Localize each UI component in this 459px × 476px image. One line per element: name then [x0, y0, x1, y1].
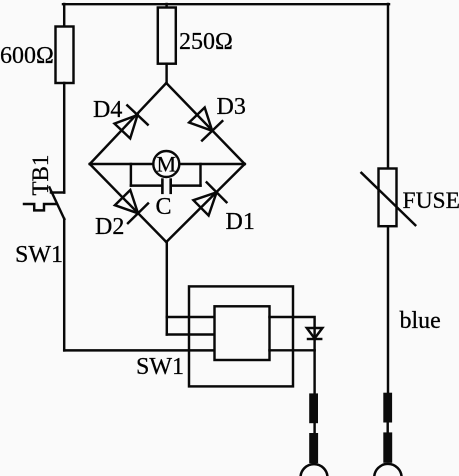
relay SW1 inner box [215, 306, 270, 360]
wire 250ohm bottom to bridge top [165, 64, 167, 84]
wire capacitor right lead [171, 184, 201, 186]
diode D2 [115, 190, 148, 223]
svg-text:D3: D3 [217, 94, 246, 120]
wire top-left drop to R 600 [63, 4, 65, 27]
diode D1 [193, 182, 226, 215]
thermal breaker TB1 contact [24, 204, 57, 210]
svg-text:D2: D2 [95, 214, 124, 240]
wire top horizontal bus [63, 3, 389, 5]
relay SW1 outer box [189, 286, 293, 386]
wire switch to bottom rail [63, 219, 65, 350]
wire relay right lower [270, 349, 315, 351]
capacitor C plates [162, 180, 170, 193]
wire top drop to R 250 [165, 4, 167, 8]
plug left sleeve wire gap [313, 423, 315, 433]
diode at relay output [307, 328, 323, 339]
capacitor C branch right drop [199, 164, 201, 186]
svg-text:SW1: SW1 [136, 354, 184, 380]
diode D4 [115, 105, 148, 138]
wire bridge edge top-right [166, 83, 244, 164]
switch SW1 upper stub [51, 191, 64, 193]
wire capacitor left lead [131, 184, 162, 186]
wire bridge horizontal motor to right [179, 163, 244, 165]
svg-text:250Ω: 250Ω [179, 29, 233, 55]
svg-text:D1: D1 [226, 209, 255, 235]
svg-text:TB1: TB1 [28, 155, 53, 196]
svg-text:600Ω: 600Ω [0, 43, 54, 69]
plug left ring terminal [301, 464, 328, 476]
plug right sleeve wire gap [386, 423, 388, 433]
resistor 250ohm [158, 8, 176, 64]
wire bottom rail to relay box [64, 349, 214, 351]
wire top-right drop to fuse [387, 4, 389, 169]
svg-text:M: M [157, 152, 177, 177]
svg-text:SW1: SW1 [15, 242, 63, 268]
switch SW1 blade [50, 188, 65, 220]
fuse diagonal stroke [361, 173, 415, 225]
fuse FUSE body [379, 169, 397, 227]
svg-text:D4: D4 [93, 97, 122, 123]
plug left upper ferrule [309, 393, 318, 423]
resistor 600ohm [56, 27, 74, 84]
plug right lower ferrule [383, 432, 392, 462]
diode D3 [189, 108, 222, 141]
svg-text:FUSE: FUSE [403, 188, 459, 214]
wire diode to left plug [313, 339, 315, 394]
motor U=M circle [153, 151, 179, 177]
plug left lower ferrule [309, 433, 318, 463]
svg-text:C: C [156, 194, 172, 220]
wire 600ohm bottom to switch [63, 83, 65, 193]
plug right upper ferrule [383, 393, 392, 423]
wire relay right upper to diode [270, 317, 315, 339]
wire bridge bottom vertical [166, 242, 168, 335]
plug right ring terminal [374, 464, 401, 476]
wire stub upper into relay [167, 316, 215, 318]
wire bridge edge bottom-right [166, 164, 244, 242]
wire fuse to right plug (blue) [387, 226, 389, 393]
capacitor C branch left drop [130, 164, 132, 186]
wire bridge edge left-top [90, 83, 167, 164]
svg-text:blue: blue [400, 308, 441, 334]
wire bridge edge left-bottom [90, 164, 167, 242]
wire stub lower into relay [167, 333, 215, 335]
wire bridge horizontal left to motor [90, 163, 154, 165]
